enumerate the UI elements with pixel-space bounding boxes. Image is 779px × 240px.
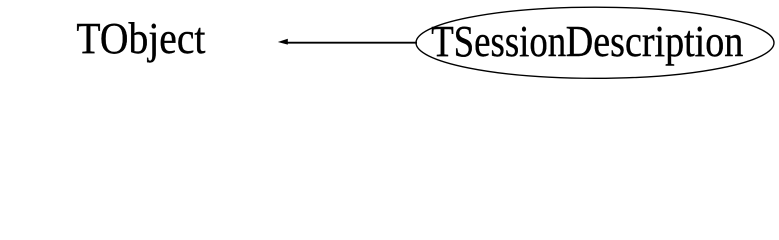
svg-text:Description: Description	[566, 17, 744, 66]
svg-text:TObject: TObject	[76, 14, 205, 63]
svg-text:TSession: TSession	[431, 17, 566, 66]
